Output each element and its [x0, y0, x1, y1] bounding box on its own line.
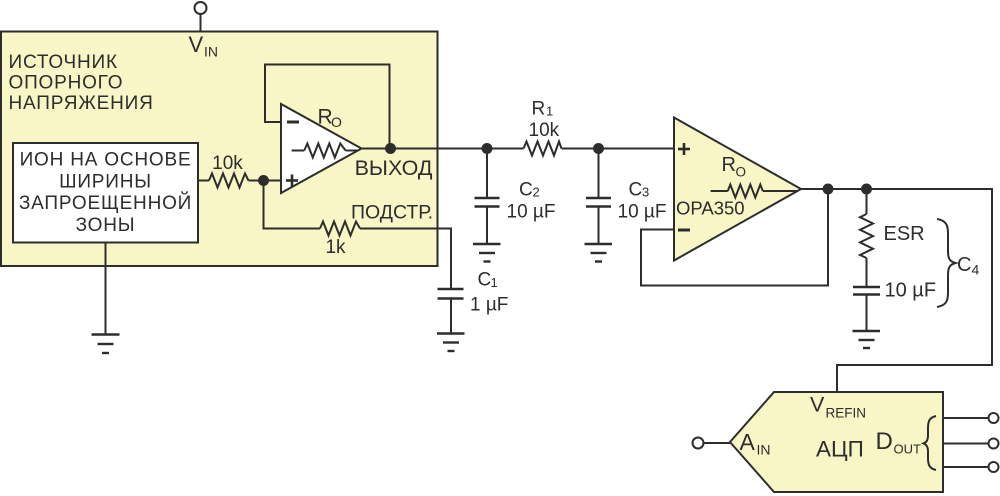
svg-text:REFIN: REFIN	[826, 406, 867, 421]
svg-text:V: V	[189, 32, 204, 57]
svg-text:C: C	[478, 270, 492, 291]
svg-text:ЗОНЫ: ЗОНЫ	[76, 215, 136, 236]
svg-text:D: D	[876, 428, 893, 455]
svg-text:1 µF: 1 µF	[470, 295, 508, 316]
svg-text:ЗАПРОЕЩЕННОЙ: ЗАПРОЕЩЕННОЙ	[19, 192, 192, 214]
svg-text:OPA350: OPA350	[676, 198, 745, 219]
svg-text:10 µF: 10 µF	[507, 202, 556, 223]
svg-text:R: R	[532, 98, 546, 119]
svg-text:ШИРИНЫ: ШИРИНЫ	[59, 172, 152, 193]
svg-text:НАПРЯЖЕНИЯ: НАПРЯЖЕНИЯ	[9, 93, 154, 114]
svg-text:V: V	[810, 393, 825, 417]
svg-text:ВЫХОД: ВЫХОД	[355, 156, 433, 180]
svg-text:4: 4	[972, 262, 980, 278]
svg-text:C: C	[519, 179, 533, 200]
svg-text:OUT: OUT	[894, 442, 922, 457]
svg-text:1: 1	[491, 275, 498, 290]
svg-text:10k: 10k	[529, 120, 560, 141]
svg-text:O: O	[736, 165, 747, 180]
svg-text:10 µF: 10 µF	[618, 202, 667, 223]
svg-text:ИОН НА ОСНОВЕ: ИОН НА ОСНОВЕ	[20, 150, 192, 171]
svg-text:1: 1	[546, 104, 553, 119]
svg-text:ESR: ESR	[884, 223, 925, 245]
svg-text:3: 3	[642, 185, 649, 200]
svg-text:ОПОРНОГО: ОПОРНОГО	[9, 72, 124, 93]
svg-text:2: 2	[533, 185, 540, 200]
svg-text:IN: IN	[757, 442, 771, 458]
svg-text:10k: 10k	[212, 153, 243, 174]
svg-text:C: C	[957, 254, 971, 276]
svg-text:O: O	[331, 114, 342, 130]
svg-text:A: A	[740, 429, 756, 455]
svg-text:1k: 1k	[325, 237, 346, 258]
svg-text:IN: IN	[204, 44, 218, 60]
svg-text:ИСТОЧНИК: ИСТОЧНИК	[9, 52, 118, 73]
svg-text:C: C	[629, 179, 643, 200]
svg-text:ПОДСТР.: ПОДСТР.	[351, 202, 433, 224]
svg-text:10 µF: 10 µF	[885, 280, 937, 302]
svg-text:АЦП: АЦП	[816, 437, 864, 462]
svg-text:R: R	[722, 154, 736, 176]
